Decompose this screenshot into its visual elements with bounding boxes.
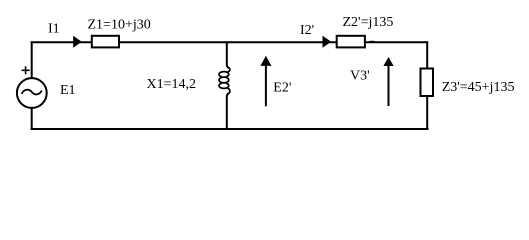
svg-text:E1: E1 bbox=[60, 83, 76, 98]
svg-text:Z3'=45+j135: Z3'=45+j135 bbox=[442, 80, 515, 95]
arrow V3' bbox=[388, 64, 390, 106]
svg-text:Z2'=j135: Z2'=j135 bbox=[343, 15, 394, 30]
svg-text:Z1=10+j30: Z1=10+j30 bbox=[88, 18, 151, 33]
wire: bottom horizontal bbox=[31, 128, 429, 130]
resistor box Z2' bbox=[337, 36, 365, 48]
arrow I1 bbox=[73, 36, 82, 48]
arrow E2' bbox=[265, 63, 267, 106]
svg-text:V3': V3' bbox=[350, 68, 370, 83]
wire: top horizontal bbox=[31, 41, 429, 43]
wire: left vertical upper bbox=[31, 41, 33, 77]
wire stub after Z2' box bbox=[370, 41, 375, 43]
svg-text:X1=14,2: X1=14,2 bbox=[147, 77, 197, 92]
svg-text:I2': I2' bbox=[300, 23, 314, 38]
plus sign bbox=[22, 69, 30, 71]
resistor box Z1 bbox=[92, 36, 119, 48]
source E1 circle bbox=[17, 78, 47, 108]
inductor X1 coil bbox=[219, 68, 230, 93]
wire: left vertical lower bbox=[31, 108, 33, 130]
resistor box Z3' bbox=[421, 69, 434, 97]
svg-text:E2': E2' bbox=[273, 81, 291, 96]
arrow I2' bbox=[323, 36, 332, 48]
wire: right vertical lower bbox=[426, 96, 428, 130]
wire: right vertical upper bbox=[426, 41, 428, 68]
wire: middle vertical upper (to coil) bbox=[227, 41, 230, 68]
wire: middle vertical lower (from coil) bbox=[227, 93, 230, 130]
source sine wave bbox=[22, 90, 42, 95]
svg-text:I1: I1 bbox=[48, 21, 60, 36]
